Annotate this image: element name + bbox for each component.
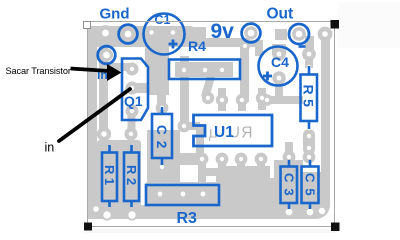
wire: R4 left pad down to U1 notch pad bbox=[180, 70, 189, 126]
resistor R5 outline bbox=[301, 75, 318, 122]
pad inner ring Out blue pad bbox=[294, 29, 304, 39]
svg-text:R1: R1 bbox=[102, 165, 117, 189]
selection handle bottom-right (black) bbox=[331, 223, 340, 232]
pad R4 mid bbox=[201, 66, 209, 74]
pad Q1 top bbox=[128, 65, 136, 73]
wire: band stub toward C4 bbox=[248, 40, 263, 47]
wire: Q1 bottom pad down to pad bbox=[128, 111, 136, 134]
transistor Q1 outline bbox=[122, 59, 148, 121]
wire: stems below mid row pads toward U1 bbox=[218, 102, 226, 111]
copper pour: region behind C2 bbox=[147, 130, 180, 185]
connector pad In blue ring bbox=[98, 46, 116, 64]
pad right of Out gray bbox=[320, 29, 330, 39]
op-amp U1 outline bbox=[194, 115, 273, 146]
svg-text:9v: 9v bbox=[211, 20, 235, 43]
pad mid row 2 bbox=[218, 96, 226, 104]
selection handle top-right (black) bbox=[331, 20, 340, 29]
wire: gray square left of U1 bottom row bbox=[180, 153, 204, 165]
wire: left second bar from top band to pad bbox=[99, 40, 108, 134]
svg-text:Q1: Q1 bbox=[124, 93, 143, 109]
faint artifact below board bbox=[85, 229, 337, 233]
capacitor C4 outline bbox=[259, 47, 298, 86]
svg-text:R5: R5 bbox=[301, 85, 317, 112]
copper pour: C1 pad squares bbox=[145, 27, 158, 38]
capacitor C1 outline bbox=[144, 14, 185, 55]
svg-text:Gnd: Gnd bbox=[100, 6, 130, 23]
resistor R1 outline bbox=[102, 153, 117, 202]
pad under Gnd gray bbox=[100, 28, 111, 39]
pads above C3 C5 bbox=[285, 153, 293, 161]
capacitor C3 outline bbox=[281, 167, 298, 204]
svg-text:C2: C2 bbox=[154, 125, 169, 154]
capacitor C5 outline bbox=[302, 167, 319, 204]
pad inner ring 9v blue pad bbox=[246, 28, 256, 38]
pads inside R3 bbox=[156, 190, 164, 198]
resistor R4 outline bbox=[169, 60, 240, 80]
plus sign C1 bbox=[169, 40, 178, 49]
wire: C1 left pad down then to R4 left pad bbox=[145, 38, 169, 67]
wire: 9v pad down to mid row bbox=[240, 40, 249, 102]
copper pour: left bar bbox=[88, 26, 97, 219]
pad left bar mid bbox=[99, 129, 108, 138]
wire: stems below U1 pads bbox=[198, 159, 206, 187]
selection rectangle bbox=[88, 22, 335, 227]
wire: R5 top pad stem bbox=[305, 54, 313, 68]
connector pad Gnd blue ring bbox=[119, 25, 138, 44]
pad C1 right bbox=[169, 28, 178, 37]
pad left below C4 bbox=[263, 96, 271, 104]
annotation arrow to Q1 bbox=[71, 69, 110, 72]
wire: C1 right pad elbow down bbox=[197, 28, 206, 47]
pad mid row 3 bbox=[238, 96, 246, 104]
svg-text:R3: R3 bbox=[177, 210, 198, 227]
wire: Q1 middle pad to C2 top pad bbox=[132, 83, 166, 108]
pad mid row 4 bbox=[258, 94, 266, 102]
wire: Out pad to R5 top pad bbox=[305, 36, 314, 56]
svg-text:in: in bbox=[45, 141, 55, 155]
resistor R2 outline bbox=[124, 153, 139, 202]
wire: stems above mid row pads bbox=[218, 88, 226, 100]
rounded pour corner bottom-right bbox=[316, 205, 330, 219]
wire: C4 top pad square bbox=[272, 44, 286, 55]
copper pour: bottom band bbox=[88, 205, 330, 219]
wire: elbow from U1 pad to R3 band bbox=[198, 168, 224, 176]
svg-text:R: R bbox=[241, 125, 252, 142]
pad mid row 1 bbox=[204, 94, 212, 102]
copper pour: lower-left region behind R1 R2 bbox=[97, 140, 141, 219]
wire: diagonal R4 mid pad to row pad bbox=[201, 72, 216, 98]
capacitor C2 outline bbox=[152, 114, 172, 158]
pad inner ring Gnd blue pad bbox=[123, 29, 133, 39]
pad C2 bottom / R3 top bbox=[158, 163, 166, 171]
resistor R3 outline bbox=[146, 185, 219, 205]
svg-text:Out: Out bbox=[267, 6, 294, 23]
wire: R5 double pad capsule bbox=[303, 129, 315, 155]
plus sign C4 bbox=[263, 72, 272, 81]
svg-text:C1: C1 bbox=[155, 13, 171, 27]
wire: small blob left of Out pad bbox=[275, 29, 287, 40]
white holes bbox=[93, 30, 328, 219]
selection handle top-left (white) bbox=[84, 22, 91, 29]
pad right of C4 bbox=[305, 50, 314, 59]
pad left of U1 notch bbox=[180, 122, 188, 130]
copper pour: region behind C3 C5 bbox=[274, 160, 303, 219]
pads under U1 row bbox=[198, 155, 206, 163]
wire: through U1 notch down to bottom row bbox=[184, 122, 200, 130]
pad on 9v trace bbox=[242, 43, 249, 50]
svg-text:U1: U1 bbox=[214, 124, 234, 141]
copper pour: right bar bbox=[321, 30, 330, 219]
connector pad Out blue ring bbox=[289, 24, 309, 44]
pad inner ring In blue pad bbox=[102, 50, 112, 60]
wire: In pad to Q1 top pad bbox=[106, 63, 132, 71]
pad R4 left bbox=[180, 66, 188, 74]
svg-text:C5: C5 bbox=[302, 173, 317, 202]
copper pour: band under C1 toward 9v bbox=[140, 38, 250, 47]
pad Q1 bottom bbox=[128, 107, 136, 115]
annotation line in to Q1 bbox=[59, 89, 130, 141]
svg-text:C3: C3 bbox=[281, 173, 296, 202]
wire: R4 pads link / interior copper bbox=[175, 62, 233, 77]
selection handle bottom-left (black) bbox=[84, 223, 92, 231]
pad right of it bbox=[127, 130, 135, 138]
pad R4 right bbox=[218, 66, 226, 74]
bottom edge holes bbox=[103, 211, 110, 218]
pad C4 top bbox=[275, 50, 283, 58]
svg-text:R4: R4 bbox=[188, 38, 206, 54]
connector pad 9v blue ring bbox=[242, 24, 261, 43]
pad C4 bottom bbox=[275, 74, 283, 82]
wire: C4 bottom pad stem and elbow to pads bbox=[263, 78, 303, 104]
pad Q1 middle bbox=[128, 84, 136, 92]
faint artifact top-right bbox=[338, 2, 400, 48]
copper pour: top band left bbox=[88, 26, 193, 47]
wire: stem above C3 bbox=[285, 142, 293, 160]
svg-text:Sacar Transistor: Sacar Transistor bbox=[6, 66, 71, 76]
minus mark near C4 bbox=[299, 45, 306, 48]
svg-text:C4: C4 bbox=[271, 54, 289, 70]
copper pour: band behind R3 bbox=[146, 182, 232, 207]
pad bumps at bottom edge bbox=[101, 209, 112, 220]
pads: gray rings with white holes bbox=[93, 28, 330, 219]
pad C1 left bbox=[147, 28, 156, 37]
pad C2 top bbox=[158, 104, 166, 112]
copper pour: region below U1 bbox=[218, 166, 270, 210]
svg-text:R2: R2 bbox=[124, 165, 139, 189]
wire: C2 bottom pad to R3 left pad bbox=[158, 170, 166, 188]
